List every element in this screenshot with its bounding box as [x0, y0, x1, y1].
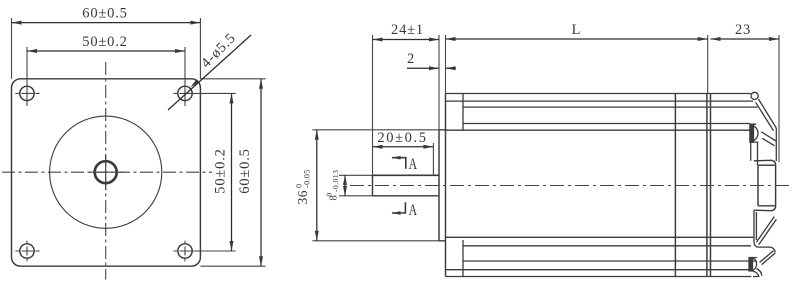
svg-text:23: 23 [735, 22, 751, 38]
svg-text:2: 2 [407, 51, 415, 67]
svg-text:A: A [409, 156, 418, 173]
svg-text:24±1: 24±1 [391, 22, 424, 38]
svg-text:36: 36 [295, 190, 310, 205]
svg-text:-0.013: -0.013 [331, 170, 340, 192]
svg-text:A: A [409, 202, 418, 219]
svg-text:60±0.5: 60±0.5 [237, 148, 253, 193]
svg-text:50±0.2: 50±0.2 [213, 148, 229, 193]
svg-text:60±0.5: 60±0.5 [82, 6, 127, 22]
svg-text:20±0.5: 20±0.5 [377, 130, 427, 146]
svg-text:50±0.2: 50±0.2 [82, 34, 127, 50]
svg-text:L: L [572, 22, 582, 38]
svg-text:0: 0 [325, 193, 334, 197]
svg-text:-0.05: -0.05 [303, 169, 312, 188]
